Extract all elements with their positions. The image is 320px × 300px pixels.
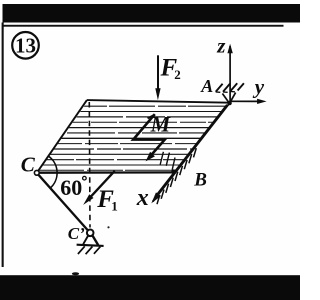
ground hatching at C' [78, 246, 100, 254]
force F2 arrowhead [155, 88, 160, 100]
force F1 [88, 171, 115, 200]
60 degree arc [48, 156, 57, 188]
z axis arrowhead [227, 44, 232, 54]
svg-text:x: x [136, 185, 149, 211]
plate hatching [30, 106, 235, 170]
support at A hatching [216, 83, 244, 92]
svg-text:60: 60 [60, 175, 82, 200]
support at A links [222, 93, 235, 104]
x axis arrowhead [151, 192, 161, 203]
svg-text:1: 1 [111, 199, 118, 214]
svg-text:C: C [21, 152, 36, 176]
rod C to C' [39, 175, 89, 231]
support legs at C' [83, 236, 88, 244]
pin at C' [87, 230, 94, 237]
svg-text:C’: C’ [68, 224, 85, 243]
ink speck [107, 226, 109, 228]
svg-text:13: 13 [15, 34, 36, 58]
frame top rule [3, 25, 284, 27]
moment M arrowhead [146, 152, 155, 162]
svg-text:M: M [150, 111, 172, 136]
moment M zigzag arrow [133, 114, 165, 158]
svg-text:z: z [216, 34, 226, 58]
junction blob at A [227, 101, 231, 105]
corner pin at C [34, 170, 39, 175]
plate left edge [37, 100, 87, 173]
junction blob at B [171, 169, 176, 174]
svg-text:B: B [193, 170, 207, 191]
plate top edge [87, 100, 230, 103]
y axis arrowhead [257, 99, 267, 104]
moment M start barb [148, 115, 155, 119]
ground line at C' [77, 245, 104, 246]
plate bottom edge [37, 171, 176, 174]
degree mark [83, 176, 87, 180]
frame left rule [2, 23, 4, 268]
force F2 [157, 55, 159, 91]
support at B hatching inner [160, 152, 175, 170]
svg-text:A: A [200, 76, 213, 96]
z axis [229, 46, 231, 102]
plate right edge inner [155, 105, 227, 197]
force F1 arrowhead [83, 194, 93, 205]
bottom black band [0, 275, 300, 300]
dashed vertical line C' to plate corner [88, 102, 91, 228]
svg-text:2: 2 [174, 67, 181, 82]
y axis [230, 100, 259, 102]
ink smudge [72, 272, 79, 275]
support at B hatching outer [157, 148, 196, 204]
support at A hatching feet [216, 91, 235, 94]
plate right edge outer (extends as x axis) [153, 103, 230, 202]
figure number circle [12, 32, 39, 59]
top black band [3, 4, 301, 23]
